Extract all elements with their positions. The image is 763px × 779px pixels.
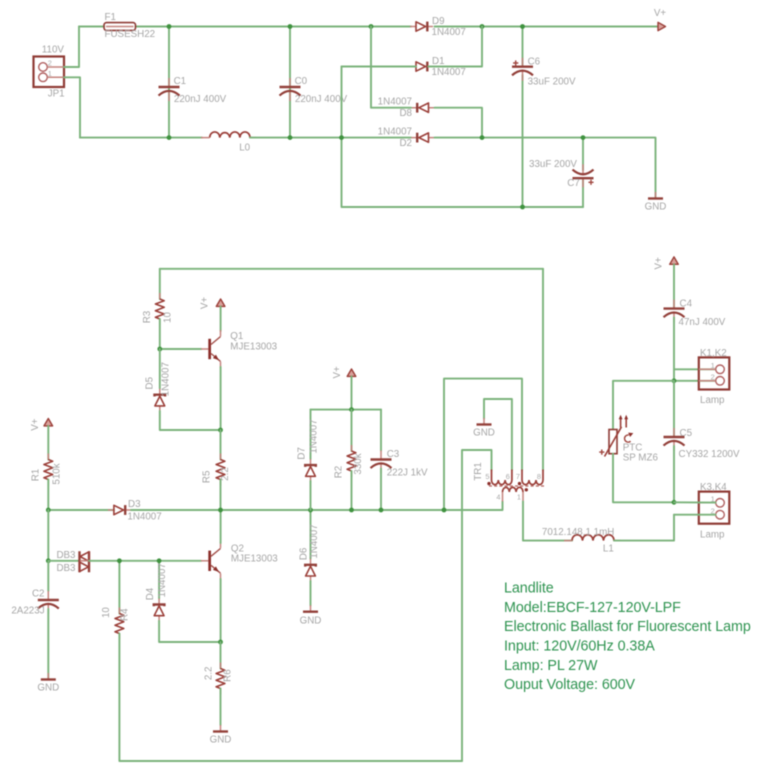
wire K3K4 pin2 to L1 branch bbox=[674, 514, 716, 516]
svg-text:TR1: TR1 bbox=[473, 462, 484, 481]
wire TR1 pin5 to feedback rail bbox=[462, 450, 492, 761]
wire Q1 emitter down bbox=[220, 367, 222, 430]
capacitor C4 47nJ 400V bbox=[673, 264, 675, 307]
svg-text:C0: C0 bbox=[295, 76, 308, 87]
wire TR1 pin7 branch to mid rail bbox=[444, 379, 522, 510]
svg-text:1N4007: 1N4007 bbox=[378, 97, 412, 108]
wire AC2 bottom line JP1 to L0 bbox=[80, 137, 202, 139]
ground GND below C2 bbox=[41, 673, 56, 680]
svg-text:R3: R3 bbox=[142, 310, 153, 323]
svg-text:C1: C1 bbox=[174, 76, 187, 87]
svg-text:D6: D6 bbox=[298, 547, 309, 560]
svg-text:GND: GND bbox=[645, 202, 667, 213]
svg-text:GND: GND bbox=[37, 683, 59, 694]
svg-text:Ouput Voltage: 600V: Ouput Voltage: 600V bbox=[504, 677, 636, 693]
V+ symbol above C4 bbox=[670, 257, 679, 264]
diode D1 1N4007 bbox=[410, 62, 433, 72]
svg-text:PTC: PTC bbox=[623, 442, 643, 453]
svg-text:D1: D1 bbox=[432, 56, 445, 67]
wire AC1 top rail from fuse to D9 bbox=[136, 26, 412, 28]
junction C3 at mid rail bbox=[379, 508, 384, 513]
svg-text:D5: D5 bbox=[145, 376, 156, 389]
svg-text:C7: C7 bbox=[567, 178, 580, 189]
junction C6 top at V+ rail bbox=[520, 24, 525, 29]
junction lamp top node bbox=[672, 378, 677, 383]
svg-text:V+: V+ bbox=[30, 418, 41, 431]
diode D5 1N4007 bbox=[159, 349, 161, 389]
junction D8-D2 anode node bbox=[480, 135, 485, 140]
svg-text:33uF 200V: 33uF 200V bbox=[528, 76, 576, 87]
junction C1 bottom bbox=[167, 135, 172, 140]
svg-text:V+: V+ bbox=[654, 8, 667, 19]
svg-text:D7: D7 bbox=[296, 447, 307, 460]
svg-text:1N4007: 1N4007 bbox=[127, 512, 161, 523]
junction R2 at mid rail bbox=[349, 508, 354, 513]
svg-text:510k: 510k bbox=[52, 463, 63, 484]
transistor Q1 MJE13003 bbox=[201, 330, 221, 368]
svg-text:JP1: JP1 bbox=[48, 89, 65, 100]
transformer TR1 bbox=[487, 470, 545, 502]
wire V+ rail from D9 to arrow bbox=[435, 26, 659, 28]
svg-text:8: 8 bbox=[537, 472, 541, 481]
resistor R1 510k bbox=[47, 426, 49, 460]
svg-text:GND: GND bbox=[210, 735, 232, 746]
svg-text:1N4007: 1N4007 bbox=[309, 524, 320, 558]
capacitor C1 220nJ 400V bbox=[168, 27, 170, 138]
resistor R2 330k bbox=[351, 410, 353, 451]
wire L1 to lamp connector K3K4 pin2 bbox=[614, 515, 674, 541]
wire JP1 pin2 up to top rail bbox=[64, 27, 79, 68]
capacitor C3 222J 1kV bbox=[380, 410, 382, 451]
svg-text:5: 5 bbox=[485, 472, 489, 481]
svg-text:10: 10 bbox=[163, 312, 174, 323]
ground GND below D6 bbox=[303, 605, 318, 612]
svg-text:1N4007: 1N4007 bbox=[432, 27, 466, 38]
junction AC2 vertical at bottom line bbox=[339, 135, 344, 140]
wire D7 to mid rail bbox=[310, 481, 312, 510]
wire lamp bottom node to K3K4 pin1 bbox=[674, 501, 716, 503]
diode D4 1N4007 bbox=[158, 561, 160, 599]
svg-text:MJE13003: MJE13003 bbox=[231, 553, 278, 564]
ground GND top right bbox=[648, 192, 663, 199]
wire mid rail D3 to TR1 pin4 bbox=[131, 502, 503, 511]
connector K1,K2 Lamp bbox=[699, 357, 730, 389]
svg-text:2: 2 bbox=[48, 59, 52, 68]
diode D3 1N4007 bbox=[108, 505, 131, 515]
svg-text:7: 7 bbox=[516, 472, 520, 481]
svg-text:1N4007: 1N4007 bbox=[157, 563, 168, 597]
svg-text:2: 2 bbox=[711, 373, 715, 382]
svg-text:L0: L0 bbox=[239, 143, 250, 154]
svg-text:1: 1 bbox=[48, 69, 52, 78]
capacitor C7 33uF 200V polarized bbox=[582, 138, 584, 170]
svg-text:Model:EBCF-127-120V-LPF: Model:EBCF-127-120V-LPF bbox=[504, 600, 681, 616]
wire D5 anode to Q1 emitter node bbox=[160, 411, 221, 430]
svg-text:330k: 330k bbox=[353, 453, 364, 474]
wire oscillator top rail bbox=[160, 268, 543, 270]
svg-text:1: 1 bbox=[711, 361, 715, 370]
junction R1 at mid rail bbox=[46, 508, 51, 513]
svg-text:2.2: 2.2 bbox=[204, 666, 215, 680]
wire JP1 pin1 down to bottom AC2 line bbox=[64, 77, 80, 137]
svg-text:10: 10 bbox=[101, 607, 112, 618]
svg-text:R2: R2 bbox=[334, 466, 345, 479]
connector JP1 110V bbox=[34, 57, 65, 88]
wire D1 anode to AC2 vertical bbox=[342, 66, 417, 68]
svg-text:2A223J: 2A223J bbox=[11, 606, 44, 617]
svg-text:DB3: DB3 bbox=[56, 563, 76, 574]
svg-text:FUSESH22: FUSESH22 bbox=[105, 29, 156, 40]
junction R3 base D5 node bbox=[157, 347, 162, 352]
junction D4 at base wire bbox=[157, 558, 162, 563]
svg-text:R5: R5 bbox=[202, 470, 213, 483]
wire mid rail R1 to D3 bbox=[48, 509, 114, 511]
svg-text:R4: R4 bbox=[119, 608, 130, 621]
wire K1K2 pin2 junction node bbox=[674, 380, 716, 382]
svg-text:110V: 110V bbox=[42, 44, 65, 55]
wire AC2 vertical branch to bottom link bbox=[342, 67, 584, 208]
svg-text:GND: GND bbox=[473, 428, 495, 439]
wire V+ down to snubber top rail bbox=[351, 376, 353, 409]
wire D4 bottom to Q2 emitter node bbox=[159, 621, 220, 642]
svg-text:C5: C5 bbox=[680, 428, 693, 439]
svg-text:Input: 120V/60Hz 0.38A: Input: 120V/60Hz 0.38A bbox=[504, 639, 655, 655]
svg-text:K3,K4: K3,K4 bbox=[700, 482, 727, 493]
svg-text:6: 6 bbox=[506, 472, 510, 481]
junction D9 cathode node bbox=[480, 24, 485, 29]
junction Q2 emitter R6 D4 bbox=[218, 640, 223, 645]
svg-text:220nJ 400V: 220nJ 400V bbox=[174, 94, 227, 105]
junction C0 top bbox=[288, 24, 293, 29]
junction C0 bottom bbox=[288, 135, 293, 140]
svg-text:1N4007: 1N4007 bbox=[432, 67, 466, 78]
wire snubber top rail bbox=[311, 409, 382, 411]
svg-text:1N4007: 1N4007 bbox=[308, 419, 319, 453]
wire AC line top from JP1 to fuse bbox=[79, 26, 104, 28]
resistor R6 2.2 bbox=[220, 642, 222, 669]
diode D6 1N4007 bbox=[310, 510, 312, 559]
capacitor C2 2A223J bbox=[47, 561, 49, 591]
connector K3,K4 Lamp bbox=[699, 492, 730, 524]
junction R5 Q2 collector at mid rail bbox=[218, 508, 223, 513]
svg-text:47nJ 400V: 47nJ 400V bbox=[679, 317, 726, 328]
svg-text:33uF 200V: 33uF 200V bbox=[529, 159, 577, 170]
svg-text:C6: C6 bbox=[528, 57, 541, 68]
svg-text:1N4007: 1N4007 bbox=[161, 362, 172, 396]
thermistor PTC SP MZ6 bbox=[605, 415, 634, 457]
svg-text:C2: C2 bbox=[32, 588, 45, 599]
svg-text:Q1: Q1 bbox=[230, 331, 243, 342]
diode D8 1N4007 bbox=[411, 103, 434, 113]
wire K1K2 pin1 to C4 branch bbox=[674, 368, 716, 370]
svg-text:1N4007: 1N4007 bbox=[378, 127, 412, 138]
junction D6 D7 at mid rail bbox=[308, 508, 313, 513]
V+ symbol above R2 bbox=[347, 369, 356, 376]
V+ arrow top right bbox=[658, 22, 666, 30]
capacitor C5 CY332 1200V bbox=[673, 381, 675, 436]
wire D6 to ground bbox=[310, 581, 312, 606]
V+ symbol at R1 bbox=[44, 419, 53, 426]
junction C7 top at GND rail bbox=[581, 135, 586, 140]
svg-text:F1: F1 bbox=[105, 12, 116, 23]
wire DB3 to Q2 base bbox=[89, 560, 201, 562]
junction V+ at snubber rail bbox=[349, 407, 354, 412]
svg-text:C3: C3 bbox=[387, 449, 400, 460]
junction Q1 emitter D5 R5 bbox=[218, 428, 223, 433]
svg-text:Lamp: Lamp bbox=[700, 529, 725, 540]
wire GND rail D2 anode to GND symbol corner bbox=[435, 138, 656, 198]
wire D8 anode down to GND rail bbox=[435, 108, 483, 138]
wire PTC bottom to lamp bottom node bbox=[613, 454, 674, 503]
wire AC2 from L0 to diode D2 bbox=[250, 137, 411, 139]
diode D7 1N4007 bbox=[310, 410, 312, 459]
junction top rail to D8 branch bbox=[369, 24, 374, 29]
diode D2 1N4007 bbox=[411, 133, 434, 143]
diode D9 1N4007 bbox=[410, 22, 433, 32]
svg-text:V+: V+ bbox=[654, 257, 665, 270]
V+ symbol at Q1 collector bbox=[216, 299, 225, 306]
svg-text:CY332 1200V: CY332 1200V bbox=[679, 449, 740, 460]
svg-text:D8: D8 bbox=[399, 108, 412, 119]
svg-text:Landlite: Landlite bbox=[504, 581, 554, 597]
wire Q2 collector up to mid rail bbox=[220, 510, 222, 543]
svg-text:L1: L1 bbox=[603, 544, 614, 555]
inductor L1 7012.148.1 1mH bbox=[572, 535, 614, 541]
transistor Q2 MJE13003 bbox=[201, 542, 221, 580]
wire TR1 pin8 up to oscillator rail bbox=[542, 269, 544, 470]
wire C2 to ground bbox=[47, 609, 49, 679]
resistor R3 10 bbox=[159, 269, 161, 299]
wire R4 down to bottom feedback rail bbox=[119, 634, 462, 762]
ground GND at TR1 pin6 bbox=[477, 418, 492, 425]
svg-text:D9: D9 bbox=[432, 16, 445, 27]
capacitor C0 220nJ 400V bbox=[289, 27, 291, 138]
svg-text:2.2: 2.2 bbox=[220, 467, 231, 481]
svg-text:D3: D3 bbox=[128, 499, 141, 510]
junction TR1 pin7 branch at mid rail bbox=[442, 508, 447, 513]
svg-text:K1,K2: K1,K2 bbox=[700, 348, 727, 359]
svg-text:GND: GND bbox=[300, 616, 322, 627]
fuse F1 FUSESH22 bbox=[104, 23, 136, 31]
svg-text:MJE13003: MJE13003 bbox=[230, 342, 277, 353]
svg-text:D2: D2 bbox=[399, 138, 412, 149]
wire TR1 pin1 to inductor L1 bbox=[523, 502, 572, 541]
svg-text:DB3: DB3 bbox=[56, 550, 76, 561]
svg-text:R6: R6 bbox=[222, 669, 233, 682]
svg-text:7012.148.1 1mH: 7012.148.1 1mH bbox=[542, 527, 614, 538]
wire R1 branch down to DB3 node bbox=[47, 510, 49, 561]
junction C6 bottom at link wire bbox=[520, 205, 525, 210]
svg-text:4: 4 bbox=[496, 493, 500, 502]
junction C1 top bbox=[167, 24, 172, 29]
svg-text:Lamp: Lamp bbox=[700, 395, 725, 406]
inductor L0 bbox=[210, 132, 250, 138]
resistor R5 2.2 bbox=[220, 430, 222, 460]
svg-text:V+: V+ bbox=[199, 297, 210, 310]
svg-text:222J 1kV: 222J 1kV bbox=[387, 468, 428, 479]
svg-text:D4: D4 bbox=[145, 587, 156, 600]
wire Q2 emitter down bbox=[220, 579, 222, 642]
wire TR1 pin6 to ground bbox=[484, 399, 512, 470]
wire DB3 left lead bbox=[48, 560, 79, 562]
svg-text:C4: C4 bbox=[680, 299, 693, 310]
junction R4 at DB3 wire bbox=[117, 558, 122, 563]
svg-text:Electronic Ballast for Fluores: Electronic Ballast for Fluorescent Lamp bbox=[504, 619, 751, 635]
ground GND below R6 bbox=[213, 725, 228, 732]
diac DB3 bbox=[80, 551, 90, 572]
svg-text:Lamp: PL 27W: Lamp: PL 27W bbox=[504, 658, 598, 674]
wire V+ to Q1 collector bbox=[220, 306, 222, 331]
wire D1 cathode up to V+ rail bbox=[428, 27, 482, 67]
svg-text:220nJ 400V: 220nJ 400V bbox=[295, 94, 348, 105]
wire R3 to Q1 base bbox=[160, 348, 202, 350]
wire lamp node to PTC bbox=[613, 381, 674, 429]
junction DB3 node at C2 bbox=[46, 558, 51, 563]
resistor R4 10 bbox=[118, 561, 120, 614]
junction lamp bottom node bbox=[672, 500, 677, 505]
svg-text:V+: V+ bbox=[332, 366, 343, 379]
svg-text:R1: R1 bbox=[31, 469, 42, 482]
wire D8 cathode to AC1 rail bbox=[371, 27, 411, 108]
capacitor C6 33uF 200V polarized bbox=[522, 27, 524, 67]
svg-text:SP MZ6: SP MZ6 bbox=[623, 453, 659, 464]
svg-text:1: 1 bbox=[517, 493, 521, 502]
